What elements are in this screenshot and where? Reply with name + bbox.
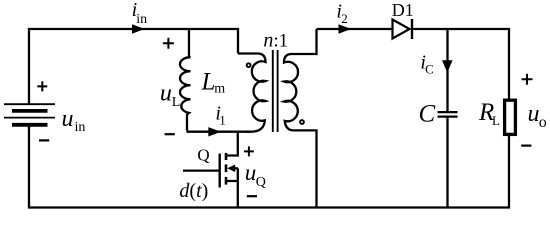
svg-text:m: m xyxy=(214,82,225,97)
gate bar xyxy=(218,154,220,188)
battery plate long thin 2 xyxy=(4,117,55,119)
svg-text:d(t): d(t) xyxy=(179,180,208,202)
current arrow i_2 xyxy=(339,24,352,33)
svg-text:o: o xyxy=(539,114,547,131)
wire: secondary top to diode anode xyxy=(317,28,393,30)
svg-text:C: C xyxy=(419,101,436,128)
svg-text:Q: Q xyxy=(256,175,266,190)
battery plate long thin 1 xyxy=(4,103,55,105)
transformer core xyxy=(272,50,274,132)
svg-text:u: u xyxy=(245,160,257,185)
label - (uo) xyxy=(521,145,531,147)
diode D1 xyxy=(393,19,413,39)
svg-text:u: u xyxy=(528,101,540,127)
capacitor C plates xyxy=(438,112,458,117)
svg-text:2: 2 xyxy=(341,11,348,26)
current arrow i_1 xyxy=(208,127,221,136)
MOSFET Q xyxy=(183,131,238,208)
battery plate short thick 2 xyxy=(12,123,48,127)
svg-text:1: 1 xyxy=(219,112,226,127)
label - (uL bottom) xyxy=(165,133,175,135)
inductor Lm xyxy=(180,57,191,131)
battery uin xyxy=(4,104,55,125)
source/body lead xyxy=(226,168,238,207)
wire: battery - down to bottom wire, bottom wire, up to RL bottom xyxy=(29,126,509,208)
battery plate short thick 1 xyxy=(12,109,48,113)
wire: capacitor top branch xyxy=(446,29,448,112)
svg-text:n: n xyxy=(263,30,273,52)
MOSFET body arrow xyxy=(227,165,235,173)
current arrow i_C (down) xyxy=(442,60,453,72)
wire: Lm top lead xyxy=(188,29,190,57)
wire: battery + up, top wire, step down to primary top xyxy=(29,29,238,105)
resistor RL xyxy=(505,100,516,134)
svg-text:in: in xyxy=(75,120,86,135)
svg-text::1: :1 xyxy=(273,31,288,52)
current arrow i_in xyxy=(132,24,145,33)
svg-text:D1: D1 xyxy=(392,0,414,20)
label + (uL top) xyxy=(163,38,174,49)
transformer secondary dot xyxy=(300,120,304,124)
label - (uQ) xyxy=(247,195,257,197)
svg-text:L: L xyxy=(492,113,500,128)
svg-text:in: in xyxy=(136,12,147,27)
wire: i1 wire (Lm bottom to primary bottom) xyxy=(187,131,251,133)
svg-text:u: u xyxy=(160,80,172,106)
transformer secondary winding xyxy=(284,29,317,208)
channel segment drain xyxy=(225,153,228,160)
transformer primary winding xyxy=(238,54,266,132)
svg-text:L: L xyxy=(172,95,181,110)
channel segment source xyxy=(225,177,228,185)
channel segment body xyxy=(225,164,228,172)
label - (battery) xyxy=(39,139,49,141)
wire: diode cathode to top-right corner, down to RL top xyxy=(413,29,510,99)
svg-text:L: L xyxy=(201,69,216,96)
svg-text:u: u xyxy=(62,106,74,132)
label + (uo) xyxy=(522,74,533,85)
transformer primary dot xyxy=(247,63,251,67)
svg-text:Q: Q xyxy=(197,146,209,165)
label + (battery) xyxy=(37,81,47,91)
gate lead xyxy=(183,169,219,171)
svg-text:C: C xyxy=(425,61,434,76)
drain lead xyxy=(226,131,238,156)
label + (uQ) xyxy=(244,146,254,156)
wire: capacitor bottom branch xyxy=(446,117,448,208)
